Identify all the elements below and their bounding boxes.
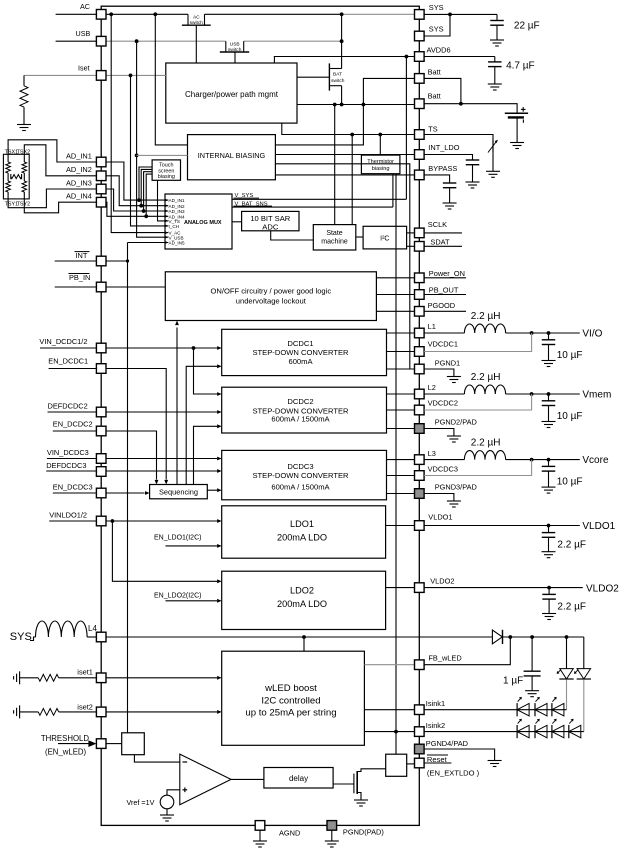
svg-text:LDO2: LDO2 xyxy=(290,585,314,595)
wire VIN_DCDC3 to DCDC3 xyxy=(47,458,217,460)
resistor R-Iset xyxy=(20,86,28,107)
wire charger to TS row xyxy=(282,123,415,134)
wire PGOOD stub xyxy=(424,310,466,312)
thermistor biasing block xyxy=(361,155,400,174)
internal biasing block xyxy=(188,135,276,180)
wire L1 feedback xyxy=(424,333,531,352)
svg-text:(EN_wLED): (EN_wLED) xyxy=(45,748,87,757)
svg-text:THRESHOLD: THRESHOLD xyxy=(41,734,89,743)
pin SYS2 xyxy=(415,31,425,41)
svg-text:V_USB: V_USB xyxy=(169,235,184,240)
wire sequencing to DCDC3 xyxy=(207,489,217,491)
pin iset1 xyxy=(96,673,106,683)
ground below C-1uF xyxy=(525,690,539,692)
svg-text:PGND(PAD): PGND(PAD) xyxy=(343,827,384,836)
pin PB_OUT xyxy=(415,290,425,300)
capacitor C-VLDO1 xyxy=(542,532,556,534)
wire EN_DCDC2 to sequencing xyxy=(53,431,157,480)
svg-text:L1: L1 xyxy=(428,322,436,331)
wire ADC to state machine xyxy=(271,231,314,240)
wire DCDC2 to VDCDC2 xyxy=(387,409,415,411)
junction L3 fb xyxy=(530,458,534,462)
svg-text:ON/OFF circuitry / power good: ON/OFF circuitry / power good logic xyxy=(210,286,331,295)
wire VLDO2 net xyxy=(424,587,583,589)
junction VLDO1 cap xyxy=(547,524,551,528)
wire iset1 to wLED block xyxy=(106,677,217,679)
wire comparator minus input xyxy=(134,755,179,762)
arrow THRESHOLD xyxy=(58,743,89,745)
pin PGND1 xyxy=(415,364,425,374)
svg-text:switch: switch xyxy=(228,47,242,53)
svg-text:biasing: biasing xyxy=(372,166,390,172)
wire sequencing to DCDC1 enable xyxy=(186,366,217,484)
wire PGND to ground xyxy=(331,830,333,841)
svg-text:Isink2: Isink2 xyxy=(426,721,445,730)
wire L3 pin to inductor xyxy=(424,459,464,461)
junction VIN_DCDC12 xyxy=(192,346,196,350)
capacitor C-22uF xyxy=(490,20,504,22)
wire diode to rail end xyxy=(503,636,584,638)
svg-text:undervoltage lockout: undervoltage lockout xyxy=(236,296,307,305)
capacitor C-4.7uF xyxy=(488,61,502,63)
state machine block xyxy=(313,225,356,250)
pin Batt xyxy=(415,74,425,84)
LED D-s2c xyxy=(552,725,564,737)
wire state machine to I2C xyxy=(356,236,363,238)
svg-text:SYS: SYS xyxy=(429,3,444,12)
DCDC3 block xyxy=(222,450,387,499)
pin TS xyxy=(415,130,425,140)
svg-text:Charger/power path mgmt: Charger/power path mgmt xyxy=(185,90,279,99)
svg-text:AD_IN3: AD_IN3 xyxy=(169,209,186,214)
pin FB_wLED xyxy=(415,660,425,670)
BAT switch Q-BAT xyxy=(341,14,343,68)
LED D-top1 xyxy=(560,669,574,679)
ground below C-INTLDO xyxy=(466,181,480,183)
junction TS row A xyxy=(350,133,354,137)
svg-text:DEFDCDC2: DEFDCDC2 xyxy=(48,402,88,411)
wire I2C to SDAT xyxy=(407,245,415,247)
svg-text:machine: machine xyxy=(321,238,348,245)
pin VLDO2 xyxy=(415,583,425,593)
junction USB/biasing xyxy=(135,154,139,158)
wire comparator plus input xyxy=(167,790,180,795)
LED D-s1c xyxy=(552,703,564,715)
svg-text:VDCDC2: VDCDC2 xyxy=(428,399,458,408)
wire internal biasing bus right xyxy=(275,164,409,369)
svg-text:600mA / 1500mA: 600mA / 1500mA xyxy=(271,483,330,492)
wire L2 cap stub xyxy=(548,394,550,401)
svg-text:TSX2: TSX2 xyxy=(17,150,30,156)
pin L2 xyxy=(415,389,425,399)
ground below battery xyxy=(510,142,524,144)
wire battery to ground xyxy=(516,118,518,143)
svg-text:BAT: BAT xyxy=(333,72,342,78)
svg-text:Batt: Batt xyxy=(428,91,441,100)
wire USB stub xyxy=(56,40,97,42)
wire TSX2 to AD_IN2 xyxy=(24,145,96,176)
LDO1 block xyxy=(222,506,386,558)
wire AD_IN3 pin to mux xyxy=(106,189,168,211)
svg-text:I2C controlled: I2C controlled xyxy=(261,696,320,707)
battery BT1 xyxy=(505,112,528,114)
wire AGND to ground xyxy=(259,830,261,841)
wire TSY1 to AD_IN3 xyxy=(8,189,96,208)
svg-text:Iset: Iset xyxy=(78,63,90,72)
pin AVDD6 xyxy=(415,52,425,62)
svg-text:AD_IN2: AD_IN2 xyxy=(66,165,92,174)
pin BYPASS xyxy=(415,170,425,180)
wire EN_DCDC1 to sequencing xyxy=(49,369,167,480)
junction rail fb xyxy=(508,635,512,639)
wire TSY2 to AD_IN4 xyxy=(24,199,96,213)
wire L4 rail to diode xyxy=(106,636,492,638)
pin DEFDCDC3 xyxy=(96,467,106,477)
wire MUX to ADC xyxy=(232,221,242,223)
ground below PGND4 xyxy=(488,760,502,762)
svg-text:2.2 µH: 2.2 µH xyxy=(471,438,501,449)
svg-text:VDCDC1: VDCDC1 xyxy=(428,340,458,349)
svg-text:SYS: SYS xyxy=(429,25,444,34)
wire TS row to state machine xyxy=(351,135,353,225)
wire thermistor to ground xyxy=(492,152,494,171)
touch screen biasing block xyxy=(152,160,180,180)
pin L1 xyxy=(415,328,425,338)
pin EN_DCDC1 xyxy=(96,364,106,374)
wire V_SYS vertical xyxy=(405,57,407,200)
svg-text:200mA LDO: 200mA LDO xyxy=(277,532,327,542)
wire AVDD6 to cap47 xyxy=(424,56,495,58)
wire C-VLDO2 to ground xyxy=(548,599,550,613)
svg-text:AD_IN3: AD_IN3 xyxy=(66,178,92,187)
svg-text:ADC: ADC xyxy=(262,222,279,231)
wire INT_LDO to cap xyxy=(424,155,472,161)
ground below Vref xyxy=(160,814,174,816)
pin SYS xyxy=(415,10,425,20)
wire TS to thermistor biasing xyxy=(379,135,381,156)
svg-text:DCDC3: DCDC3 xyxy=(287,462,313,471)
wire EN_wLED vertical bus xyxy=(127,243,129,733)
wire DCDC2 to PGND2 xyxy=(387,428,415,430)
wire touch biasing out 4 xyxy=(146,174,152,216)
svg-text:USB: USB xyxy=(230,42,240,48)
wire C-L3 to ground xyxy=(548,471,550,487)
svg-text:200mA LDO: 200mA LDO xyxy=(277,599,327,609)
svg-text:iset2: iset2 xyxy=(77,703,93,712)
junction AC rail C xyxy=(340,12,344,16)
svg-text:AD_IN5: AD_IN5 xyxy=(169,241,186,246)
wire C-BYPASS to ground xyxy=(449,188,451,203)
svg-text:VDCDC3: VDCDC3 xyxy=(428,464,458,473)
svg-text:ANALOG MUX: ANALOG MUX xyxy=(184,220,222,226)
pin Iset xyxy=(96,71,106,81)
ground below C-L3 xyxy=(542,486,556,488)
wire L3 pgnd xyxy=(424,494,454,502)
wire SDAT stub xyxy=(424,245,462,247)
svg-text:wLED boost: wLED boost xyxy=(264,683,317,694)
wire SYS to L4 xyxy=(30,637,36,641)
wire L3 feedback xyxy=(424,460,531,476)
svg-text:VIN_DCDC1/2: VIN_DCDC1/2 xyxy=(39,337,87,346)
wire USB rail right of switch xyxy=(244,40,342,42)
inductor L3 xyxy=(464,451,505,460)
wire EN_LDO2 to LDO2 xyxy=(166,600,218,602)
pin PGND/PAD xyxy=(327,821,337,831)
svg-text:INT: INT xyxy=(76,251,88,260)
wire AD_IN4 pin to mux xyxy=(106,202,168,216)
wire AD_IN1 pin to mux xyxy=(106,162,168,200)
wire USB rail left of switch xyxy=(106,40,226,42)
reset driver block xyxy=(386,754,407,776)
pin DEFDCDC2 xyxy=(96,407,106,417)
inductor L1 xyxy=(464,324,505,333)
wire wLED to Isink1 xyxy=(364,709,414,711)
wire L2 pin to inductor xyxy=(424,393,464,395)
wire VIN_DCDC12 to DCDC1 xyxy=(40,347,217,349)
svg-text:State: State xyxy=(326,230,342,237)
svg-text:switch: switch xyxy=(331,78,345,84)
wire touch biasing to V_TS xyxy=(158,180,169,221)
svg-text:VLDO1: VLDO1 xyxy=(582,521,615,532)
svg-text:VIN_DCDC3: VIN_DCDC3 xyxy=(47,448,89,457)
svg-text:I²C: I²C xyxy=(380,235,389,242)
svg-text:VLDO2: VLDO2 xyxy=(430,577,454,586)
junction SYS xyxy=(448,13,452,17)
wire TSX1 to AD_IN1 xyxy=(8,140,96,162)
wire DCDC1 to PGND1 xyxy=(387,368,415,370)
wire C-INTLDO to ground xyxy=(472,165,474,182)
wire Iset vertical to I_CH xyxy=(131,75,169,226)
ground L1 pgnd xyxy=(447,376,461,378)
junction Batt rail C xyxy=(333,103,337,107)
junction VLDO2 cap xyxy=(547,586,551,590)
wire Reset stub xyxy=(424,762,451,764)
svg-text:AC: AC xyxy=(193,15,200,21)
svg-text:PGND4/PAD: PGND4/PAD xyxy=(426,739,468,748)
ground below C-4.7uF xyxy=(488,83,502,85)
wire TS to thermistor xyxy=(424,135,493,141)
wire internal biasing to BYPASS xyxy=(275,174,414,176)
ground below C-22uF xyxy=(490,39,504,41)
svg-text:600mA / 1500mA: 600mA / 1500mA xyxy=(271,415,330,424)
pin PGND3/PAD xyxy=(415,489,425,499)
wire VINLDO12 to LDO1 xyxy=(49,520,217,522)
svg-text:EN_DCDC3: EN_DCDC3 xyxy=(53,483,93,492)
wire LDO2 to VLDO2 xyxy=(386,587,415,589)
wire charger to AVDD6 xyxy=(274,57,414,64)
pin VLDO1 xyxy=(415,521,425,531)
svg-text:I_CH: I_CH xyxy=(169,224,179,229)
svg-text:biasing: biasing xyxy=(158,174,175,180)
wire touch biasing out 1 xyxy=(139,167,152,200)
wire Vref to ground xyxy=(166,809,168,815)
capacitor C-L3 xyxy=(542,465,556,467)
wire L3 cap stub xyxy=(548,460,550,467)
capacitor C-VLDO2 xyxy=(542,593,556,595)
junction L2 fb xyxy=(530,392,534,396)
svg-text:2.2 µH: 2.2 µH xyxy=(471,372,501,383)
wire DCDC2 to L2 xyxy=(387,393,415,395)
junction L1 fb xyxy=(530,331,534,335)
svg-text:Vmem: Vmem xyxy=(582,390,611,401)
svg-text:DCDC2: DCDC2 xyxy=(287,397,313,406)
wire sequencing to ON/OFF xyxy=(176,328,178,485)
pin Reset xyxy=(415,758,425,768)
wire EN_DCDC3 to sequencing xyxy=(53,492,145,494)
touch resistor RT xyxy=(10,174,12,179)
junction AC rail A xyxy=(109,12,113,16)
junction Isink2/reset bus xyxy=(394,730,398,734)
svg-text:up to 25mA per string: up to 25mA per string xyxy=(245,708,336,719)
wire C-L1 to ground xyxy=(548,345,550,361)
wire L1 pin to inductor xyxy=(424,332,464,334)
svg-text:1 µF: 1 µF xyxy=(503,676,523,687)
wire ON/OFF to Power_ON xyxy=(376,277,414,279)
wire AC to internal biasing xyxy=(155,14,187,145)
pin VDCDC1 xyxy=(415,347,425,357)
svg-text:(EN_EXTLDO ): (EN_EXTLDO ) xyxy=(427,769,480,778)
wire C-L2 to ground xyxy=(548,406,550,422)
wire Batt internal rail xyxy=(297,104,415,106)
svg-text:PB_IN: PB_IN xyxy=(69,273,90,282)
wire LDO1 to VLDO1 xyxy=(386,525,415,527)
wire iset2 resistor xyxy=(20,711,39,713)
ground L3 pgnd xyxy=(447,500,461,502)
pin iset2 xyxy=(96,707,106,717)
diode D1 xyxy=(492,630,502,644)
pin INT xyxy=(96,256,106,266)
svg-text:10 µF: 10 µF xyxy=(557,411,583,422)
wire inductor L3 out xyxy=(506,459,580,461)
pin AD_IN4 xyxy=(96,197,106,207)
wire boost rail to wLED block xyxy=(303,637,305,651)
pin EN_DCDC2 xyxy=(96,426,106,436)
pin L3 xyxy=(415,455,425,465)
svg-text:AD_IN1: AD_IN1 xyxy=(169,198,186,203)
wire sequencing to DCDC2 enable xyxy=(194,426,218,484)
wire C-VLDO1 stub xyxy=(548,526,550,533)
junction USB rail B xyxy=(340,39,344,43)
wire SCLK stub xyxy=(424,232,462,234)
wire ON/OFF to PB_OUT xyxy=(376,294,414,296)
wLED boost block xyxy=(222,651,365,745)
wire L1 pgnd xyxy=(424,369,454,377)
capacitor C-L2 xyxy=(542,400,556,402)
wire Batt rail to internal biasing xyxy=(275,105,363,145)
svg-text:L3: L3 xyxy=(428,449,436,458)
wire PGND4 to ground xyxy=(424,749,495,761)
junction rail led1 xyxy=(565,635,569,639)
svg-text:Power_ON: Power_ON xyxy=(429,269,465,278)
junction INT bus xyxy=(126,259,129,262)
wire inductor L1 out xyxy=(506,332,580,334)
capacitor C-INTLDO xyxy=(466,159,480,161)
wire FB_wLED up xyxy=(424,637,510,665)
wire VLDO1 net xyxy=(424,525,580,527)
wire DCDC3 to L3 xyxy=(387,459,415,461)
wire I2C to SCLK xyxy=(407,232,415,234)
junction rail cap1u xyxy=(530,635,534,639)
ground below C-VLDO2 xyxy=(542,613,556,615)
wire USB vertical xyxy=(137,41,169,237)
svg-text:Batt: Batt xyxy=(428,68,441,77)
pin VDCDC3 xyxy=(415,471,425,481)
wire ON/OFF to PGOOD xyxy=(376,310,414,312)
LED D-s1a xyxy=(517,703,529,715)
wire wLED to FB_wLED pin xyxy=(364,664,414,666)
wire Batt1 to Batt2 external xyxy=(424,78,461,103)
touch resistor RY xyxy=(23,154,25,162)
pin PGND4/PAD xyxy=(415,744,425,754)
touch screen outer box xyxy=(3,154,29,199)
svg-text:Sequencing: Sequencing xyxy=(159,488,198,497)
wire USB branch to internal biasing xyxy=(137,154,188,156)
ground L2 pgnd xyxy=(447,435,461,437)
svg-text:4.7 µF: 4.7 µF xyxy=(506,61,535,72)
10-bit SAR ADC block xyxy=(242,211,299,230)
wire V_SYS row xyxy=(232,198,406,200)
pin VIN_DCDC1/2 xyxy=(96,343,106,353)
wire rail to LED2 xyxy=(583,637,585,669)
wire Isink1 string xyxy=(424,709,566,711)
pin Isink2 xyxy=(415,727,425,737)
svg-text:AD_IN2: AD_IN2 xyxy=(169,204,186,209)
op-amp comparator U-CMP xyxy=(180,754,231,805)
delay block xyxy=(264,768,333,789)
wire Batt1 to rail xyxy=(363,78,414,104)
wire cap47 stub xyxy=(494,57,496,62)
touch resistor RX xyxy=(7,154,9,162)
ground below R-Iset xyxy=(17,124,31,126)
Vref source V1 xyxy=(160,795,174,809)
wire C-1uF to ground xyxy=(531,676,533,691)
pin Power_ON xyxy=(415,273,425,283)
svg-text:switch: switch xyxy=(190,20,204,26)
wire Batt2 to battery xyxy=(424,104,517,114)
USB switch Q-USB xyxy=(225,41,227,52)
svg-text:22 µF: 22 µF xyxy=(514,21,540,32)
pin L4 xyxy=(96,632,106,642)
wire Power_ON stub xyxy=(424,277,466,279)
sequencing block xyxy=(150,485,208,499)
wire AD_IN2 pin to mux xyxy=(106,176,168,206)
svg-text:TSY2: TSY2 xyxy=(17,202,30,208)
pin SDAT xyxy=(415,242,425,252)
wire C-VLDO1 to ground xyxy=(548,537,550,551)
DCDC1 block xyxy=(222,329,387,375)
wire LED1 top xyxy=(566,637,568,669)
ground below PGND xyxy=(325,840,339,842)
charger/power-path block xyxy=(166,63,297,123)
pin AD_IN3 xyxy=(96,184,106,194)
wire iset1 resistor xyxy=(20,677,39,679)
analog mux block U-MUX xyxy=(165,194,232,249)
pin VIN_DCDC3 xyxy=(96,454,106,464)
svg-text:PGOOD: PGOOD xyxy=(428,301,456,310)
wire Iset to resistor xyxy=(23,75,25,85)
pin THRESHOLD xyxy=(96,739,106,749)
wire cap22 stub xyxy=(496,14,498,20)
pin AGND xyxy=(255,821,265,831)
wire LED2 to Isink2 string xyxy=(583,680,585,732)
wire LED1 to Isink1 string xyxy=(566,680,568,710)
wire Isink2 string xyxy=(424,731,584,733)
junction L1 cap xyxy=(547,331,551,335)
svg-text:AGND: AGND xyxy=(279,828,300,837)
capacitor C-1uF xyxy=(524,670,541,672)
wire EN_LDO1 to LDO1 xyxy=(166,545,218,547)
wire SYS rail to pin xyxy=(342,13,415,15)
